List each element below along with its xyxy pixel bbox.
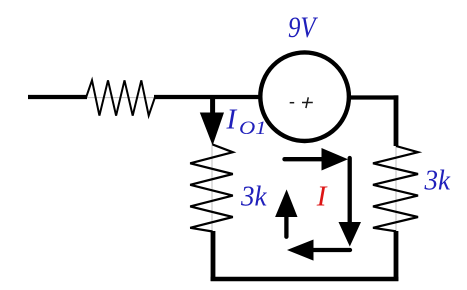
svg-text:3k: 3k: [424, 166, 451, 197]
svg-text:O1: O1: [239, 118, 267, 139]
svg-text:I: I: [226, 104, 238, 136]
svg-text:3k: 3k: [240, 181, 267, 212]
svg-text:9V: 9V: [288, 11, 319, 44]
svg-text:I: I: [316, 181, 328, 213]
